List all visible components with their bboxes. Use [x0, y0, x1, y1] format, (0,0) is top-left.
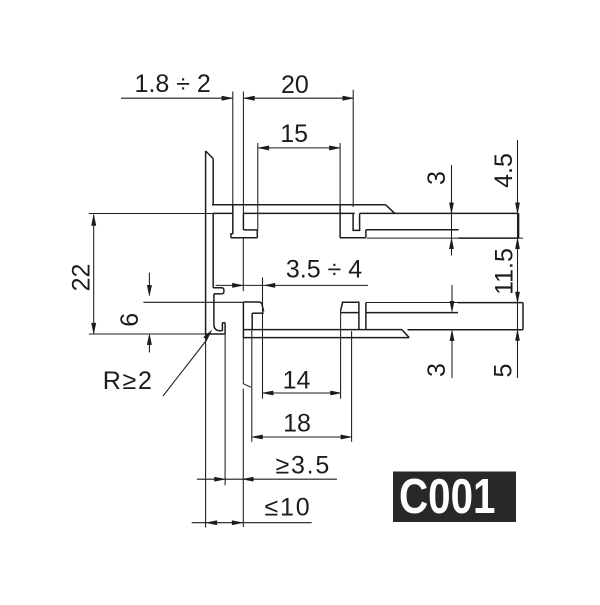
extension line top arm tip bottom for 4.5 and 11.5 [367, 237, 523, 239]
bottom right hook slot right wall [365, 303, 367, 330]
bottom left hook inner face [251, 313, 253, 329]
dimension 6 upper arrow [148, 273, 150, 287]
dimension 22 line [93, 215, 95, 335]
bottom arm tip bottom face [408, 329, 524, 331]
extension line wall lip for 3.5 [224, 334, 226, 486]
extension line 18 left [251, 330, 253, 442]
extension line for 20 right [352, 90, 354, 207]
extension line bottom mouth right edge for 14 [340, 311, 342, 399]
wall curl lip top [222, 322, 225, 324]
svg-text:5: 5 [490, 364, 518, 378]
top arm right chamfer [386, 205, 395, 214]
bottom arm left face [242, 302, 244, 338]
svg-text:1.8 ÷ 2: 1.8 ÷ 2 [135, 70, 211, 98]
bottom right hook mouth chamfer [341, 302, 343, 311]
svg-text:11.5: 11.5 [491, 248, 519, 295]
wall curl lip inner face [221, 323, 223, 331]
svg-text:3: 3 [423, 363, 451, 377]
svg-text:22: 22 [68, 264, 96, 292]
bottom left hook top [243, 302, 262, 304]
svg-text:15: 15 [280, 120, 308, 148]
extension jog diagonal [243, 384, 251, 388]
svg-text:4.5: 4.5 [490, 153, 518, 188]
top arm thin section underside [366, 229, 459, 231]
dimension 3.5÷4 line [216, 284, 368, 286]
extension line 18 right [351, 331, 353, 442]
top arm tip underside thick end [459, 237, 519, 239]
dimension 6 lower arrow [148, 343, 150, 353]
bottom arm thin section inner top [366, 312, 458, 314]
top arm ceiling left of slot [213, 212, 233, 214]
svg-text:6: 6 [116, 313, 144, 327]
dimension 18 line [252, 436, 351, 438]
extension line bottom mouth left edge for 14 [262, 278, 264, 399]
svg-text:C001: C001 [399, 470, 496, 524]
left wall top chamfer [206, 151, 214, 159]
left wall outer face [205, 151, 207, 334]
wall rib bottom [214, 293, 222, 295]
fin right edge [242, 213, 244, 230]
dimension 14 line [263, 392, 341, 394]
dimension ≤10 line [192, 522, 312, 524]
top left hook bottom [231, 237, 257, 239]
svg-text:14: 14 [283, 367, 311, 395]
svg-text:≥3.5: ≥3.5 [275, 451, 331, 479]
top right hook outer face [365, 230, 367, 238]
wall curl bottom inner [220, 330, 222, 332]
top arm tip right face [518, 213, 520, 238]
dimension 3 top shaft [451, 165, 453, 256]
extension line wall outer for 10 [205, 334, 207, 528]
fin left edge [232, 205, 234, 234]
extension line for 15 right [339, 143, 341, 205]
dimension 15 line [258, 147, 340, 149]
top right hook slot [353, 213, 360, 230]
left wall inner face lower [213, 294, 215, 325]
bottom arm tip top surface [458, 302, 523, 304]
bottom right hook ledge [341, 312, 359, 314]
wall rib outer face [222, 290, 224, 294]
wall bottom face [206, 333, 226, 335]
extension line 3.5-4 right reference [242, 238, 244, 291]
wall bottom inner fillet R2 [214, 324, 220, 330]
bottom arm floor / cavity floor [243, 329, 402, 331]
title block background [393, 472, 516, 523]
wall rib top [213, 288, 224, 290]
left wall inner face middle [212, 213, 214, 287]
bottom left hook ledge [252, 312, 264, 314]
bottom right hook top [342, 301, 360, 303]
top left hook catch top [243, 229, 257, 231]
bottom arm heel chamfer [402, 330, 409, 338]
dimension column right shaft 4.5 11.5 5 [517, 140, 519, 378]
top right hook left face / mouth edge [339, 205, 341, 238]
bottom right hook inner vertical [358, 302, 360, 329]
extension line below bottom arm left face [242, 338, 244, 384]
extension line for 3.5 and 10 right [242, 389, 244, 527]
svg-text:3: 3 [423, 171, 451, 185]
top left hook foot right face [256, 230, 258, 238]
extension line 22 upper [89, 213, 213, 215]
bottom left hook mouth chamfer [262, 304, 264, 311]
dimension 1.8÷2 line [121, 97, 232, 99]
extension line for 15 left / mouth edge [257, 143, 259, 230]
top right hook bottom [340, 237, 366, 239]
svg-text:18: 18 [283, 410, 311, 438]
dimension ≥3.5 line [197, 478, 337, 480]
left wall inner face upper [212, 159, 214, 205]
svg-text:R≥2: R≥2 [103, 367, 154, 395]
top arm wall underside right of hook [360, 212, 519, 214]
extension line fin left for 1.8-2 [232, 92, 234, 205]
bottom arm bottom face [243, 337, 409, 339]
dimension 3 bottom shaft [451, 285, 453, 303]
fin left step [231, 234, 233, 238]
svg-text:≤10: ≤10 [265, 494, 312, 522]
svg-text:3.5 ÷ 4: 3.5 ÷ 4 [286, 255, 362, 283]
extension line 6 upper / bottom hook top level [143, 301, 243, 303]
top arm top surface [212, 204, 386, 206]
bottom arm tip right face [522, 303, 524, 330]
extension line fin right for 1.8-2 [242, 92, 244, 214]
wall curl lip outer face [224, 323, 226, 334]
radius note R≥2 leader [163, 340, 207, 397]
svg-text:20: 20 [281, 71, 309, 99]
dimension 20 line [244, 97, 353, 99]
extension line bottom arm top for 11.5 and 5 [366, 302, 458, 304]
extension line 22 and 6 lower [89, 333, 206, 335]
